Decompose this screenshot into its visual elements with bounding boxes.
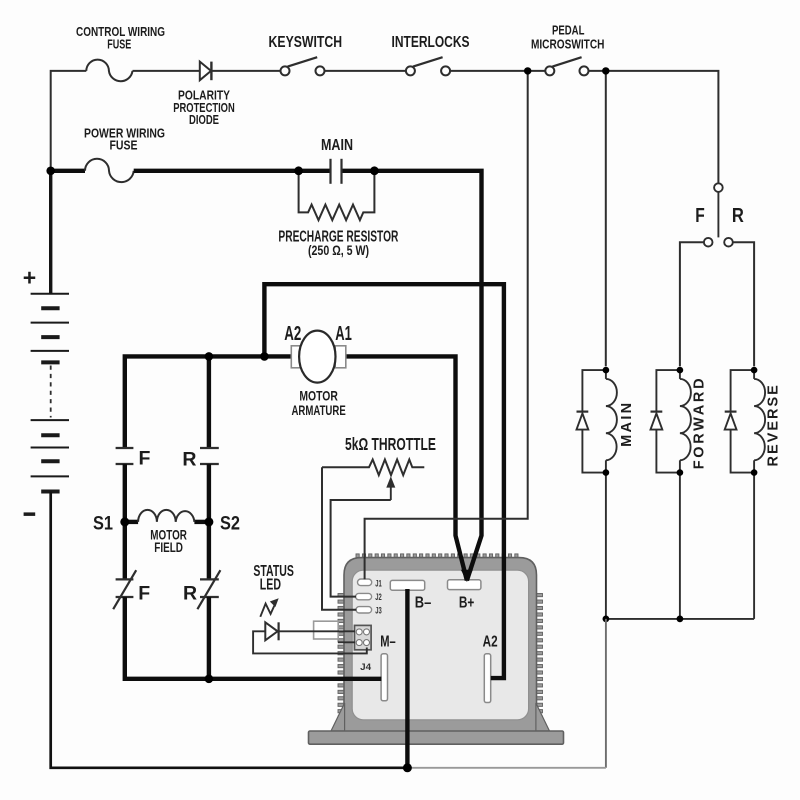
wire: pedal junction down and across to J1 input xyxy=(365,71,528,579)
svg-text:F: F xyxy=(695,205,705,227)
node: battery positive branch junction xyxy=(46,167,55,176)
wire: B- terminal down to battery negative rail xyxy=(405,589,409,768)
node: field R column junction xyxy=(205,352,214,361)
svg-text:PEDAL: PEDAL xyxy=(552,24,585,38)
switch S3 PEDAL MICROSWITCH xyxy=(545,66,554,75)
terminal M- slot xyxy=(381,654,387,701)
terminal J3 slot xyxy=(356,607,372,613)
svg-text:S1: S1 xyxy=(93,512,113,534)
inductor motor field winding xyxy=(125,520,138,524)
wire: F throw down to FORWARD coil xyxy=(680,242,704,366)
switch S4 forward/reverse selector pole xyxy=(714,183,723,192)
wire: S1 down to lower F contact xyxy=(123,522,127,580)
fuse F2 power wiring fuse xyxy=(85,159,134,182)
switch S2 INTERLOCKS xyxy=(406,66,415,75)
svg-text:MAIN: MAIN xyxy=(619,401,635,447)
node: field return junction xyxy=(205,675,214,684)
svg-text:INTERLOCKS: INTERLOCKS xyxy=(392,34,470,51)
node: B- to battery negative rail junction xyxy=(403,763,412,772)
node: REVERSE coil bottom junction xyxy=(751,469,758,476)
wire: field R column top segment xyxy=(207,356,211,448)
relay coil REVERSE xyxy=(754,379,765,460)
wire: diode D1 to keyswitch xyxy=(211,70,280,72)
wire: REVERSE coil to bottom bus xyxy=(753,473,755,619)
controller U1 mounting flange xyxy=(309,731,564,744)
connector housing on LED leads xyxy=(314,621,339,639)
wire: precharge bus to motor armature A2 and controller A2 terminal xyxy=(264,284,504,678)
node: MAIN contact left junction xyxy=(294,166,303,175)
connector J4 (4-pin) xyxy=(355,625,372,649)
wire: battery + up to control branch corner xyxy=(51,71,87,171)
wire: F contact to S1 xyxy=(123,464,127,522)
arrowhead into B+ terminal xyxy=(461,570,473,582)
contact F (forward, normally open) xyxy=(116,447,134,449)
svg-text:(250 Ω, 5 W): (250 Ω, 5 W) xyxy=(308,243,369,258)
battery negative terminal label - xyxy=(24,512,36,516)
svg-text:FUSE: FUSE xyxy=(110,138,138,153)
wire: interlocks to pedal microswitch (junction at x=527.7) xyxy=(450,70,545,72)
wire: MAIN contact to corner and down to B+ arrow (right arm) xyxy=(342,171,481,581)
battery B1 cell-stack dashed link xyxy=(50,366,52,418)
node: MAIN coil bottom junction xyxy=(603,469,610,476)
wire: bottom rail gray segment to coil return xyxy=(407,767,606,769)
node: bus junction at FORWARD column xyxy=(677,616,684,623)
wire: J4 lower pin lead xyxy=(338,641,355,643)
throttle wiper arrow xyxy=(390,487,392,501)
terminal J2 slot xyxy=(356,593,372,599)
wire: R throw down to REVERSE coil xyxy=(733,242,754,366)
svg-text:M–: M– xyxy=(380,634,396,651)
svg-text:B–: B– xyxy=(415,594,432,611)
svg-text:MAIN: MAIN xyxy=(321,137,353,154)
svg-text:J2: J2 xyxy=(375,592,382,602)
svg-text:R: R xyxy=(732,205,744,227)
LED status LED xyxy=(265,622,277,640)
potentiometer 5k throttle xyxy=(322,460,424,476)
LED emission arrows xyxy=(260,603,275,617)
node: MAIN coil top junction xyxy=(603,367,610,374)
wire: interlock junction down to MAIN coil xyxy=(605,71,607,366)
svg-text:+: + xyxy=(23,265,36,291)
svg-text:S2: S2 xyxy=(220,512,240,534)
diode D1 polarity protection diode xyxy=(200,62,211,81)
svg-text:ARMATURE: ARMATURE xyxy=(291,402,345,418)
contact R (reverse, normally open) xyxy=(200,447,219,449)
svg-text:R: R xyxy=(182,448,196,470)
wire: throttle low end to J3 xyxy=(322,467,356,610)
node: MAIN contact right junction xyxy=(370,166,379,175)
resistor R1 precharge resistor loop xyxy=(299,172,375,220)
wire: coil bus down to battery negative rail xyxy=(605,619,607,768)
node: REVERSE coil top junction xyxy=(751,367,758,374)
terminal A2 slot xyxy=(484,654,490,703)
wire: lower contacts to M- rail xyxy=(125,597,382,679)
terminal B- slot xyxy=(390,580,424,590)
flyback diode for REVERSE coil xyxy=(731,370,755,411)
svg-text:LED: LED xyxy=(260,577,281,594)
wire: S2 down to lower R contact xyxy=(207,522,211,580)
wire: keyswitch to interlocks xyxy=(325,70,406,72)
svg-text:KEYSWITCH: KEYSWITCH xyxy=(269,34,343,51)
node: bus junction at MAIN column xyxy=(603,616,610,623)
svg-text:F: F xyxy=(138,582,150,604)
switch S4 forward throw contact xyxy=(704,238,713,247)
wire: R contact to S2 xyxy=(207,464,211,522)
motor armature M1 xyxy=(291,346,302,368)
svg-text:DIODE: DIODE xyxy=(189,112,219,127)
svg-text:J4: J4 xyxy=(360,662,372,673)
svg-text:FORWARD: FORWARD xyxy=(691,376,707,470)
wire: power feed from junction to power fuse xyxy=(51,169,85,173)
contact F (lower, normally closed) xyxy=(116,578,134,580)
svg-text:A2: A2 xyxy=(284,323,301,345)
svg-text:REVERSE: REVERSE xyxy=(765,383,781,466)
node: armature A2 branch junction xyxy=(260,352,269,361)
wire: throttle wiper to J2 xyxy=(331,500,391,597)
svg-text:A2: A2 xyxy=(483,634,498,651)
wire: coil return bus xyxy=(606,618,754,620)
node: pedal microswitch left junction xyxy=(524,67,531,74)
terminal J1 slot xyxy=(358,579,372,586)
contact R (lower, normally closed) xyxy=(200,578,219,580)
svg-text:MOTOR: MOTOR xyxy=(299,387,338,403)
wire: MAIN coil to bottom bus xyxy=(605,473,607,619)
svg-text:J1: J1 xyxy=(375,579,382,589)
svg-text:5kΩ THROTTLE: 5kΩ THROTTLE xyxy=(345,434,436,454)
svg-text:J3: J3 xyxy=(375,605,382,615)
wire: pedal microswitch to F/R selector corner xyxy=(589,71,719,183)
node S1 xyxy=(120,517,129,526)
controller U1 housing (heatsink body) xyxy=(338,554,543,719)
wire: power fuse to MAIN contact xyxy=(134,169,330,173)
svg-text:R: R xyxy=(183,582,197,604)
switch S1 KEYSWITCH xyxy=(281,66,290,75)
node: pedal microswitch right junction xyxy=(602,67,609,74)
node: FORWARD coil bottom junction xyxy=(677,469,684,476)
switch S4 reverse throw contact xyxy=(724,238,733,247)
wire: armature feed - field F column top, armature row, down to B+ arrow (left arm) xyxy=(125,356,467,580)
wire: LED anode return loop to J4 xyxy=(253,631,367,653)
controller U1 body xyxy=(344,558,537,732)
svg-text:MICROSWITCH: MICROSWITCH xyxy=(531,38,605,52)
wire: fuse F1 to diode D1 xyxy=(133,70,201,72)
flyback diode for MAIN coil xyxy=(582,370,606,411)
svg-text:FUSE: FUSE xyxy=(107,37,131,52)
wire: battery + power segment down to battery top plate xyxy=(49,171,52,294)
flyback diode for FORWARD coil xyxy=(656,370,680,411)
svg-text:FIELD: FIELD xyxy=(154,540,183,555)
wire: battery negative rail (bottom) xyxy=(51,492,408,768)
svg-text:B+: B+ xyxy=(459,594,475,611)
fuse F1 control wiring fuse xyxy=(86,60,132,82)
svg-text:F: F xyxy=(138,448,150,470)
contact MAIN (contactor tips) xyxy=(329,159,331,184)
battery B1 plates xyxy=(31,294,69,492)
relay coil MAIN xyxy=(606,379,617,460)
wire: FORWARD coil to bottom bus xyxy=(679,473,681,619)
terminal B+ slot xyxy=(448,580,481,590)
node S2 xyxy=(204,517,213,526)
wire: LED cathode to J4 upper pin xyxy=(279,630,355,632)
svg-text:A1: A1 xyxy=(335,323,352,345)
node: FORWARD coil top junction xyxy=(677,367,684,374)
controller U1 face panel xyxy=(352,570,528,720)
relay coil FORWARD xyxy=(680,379,691,460)
